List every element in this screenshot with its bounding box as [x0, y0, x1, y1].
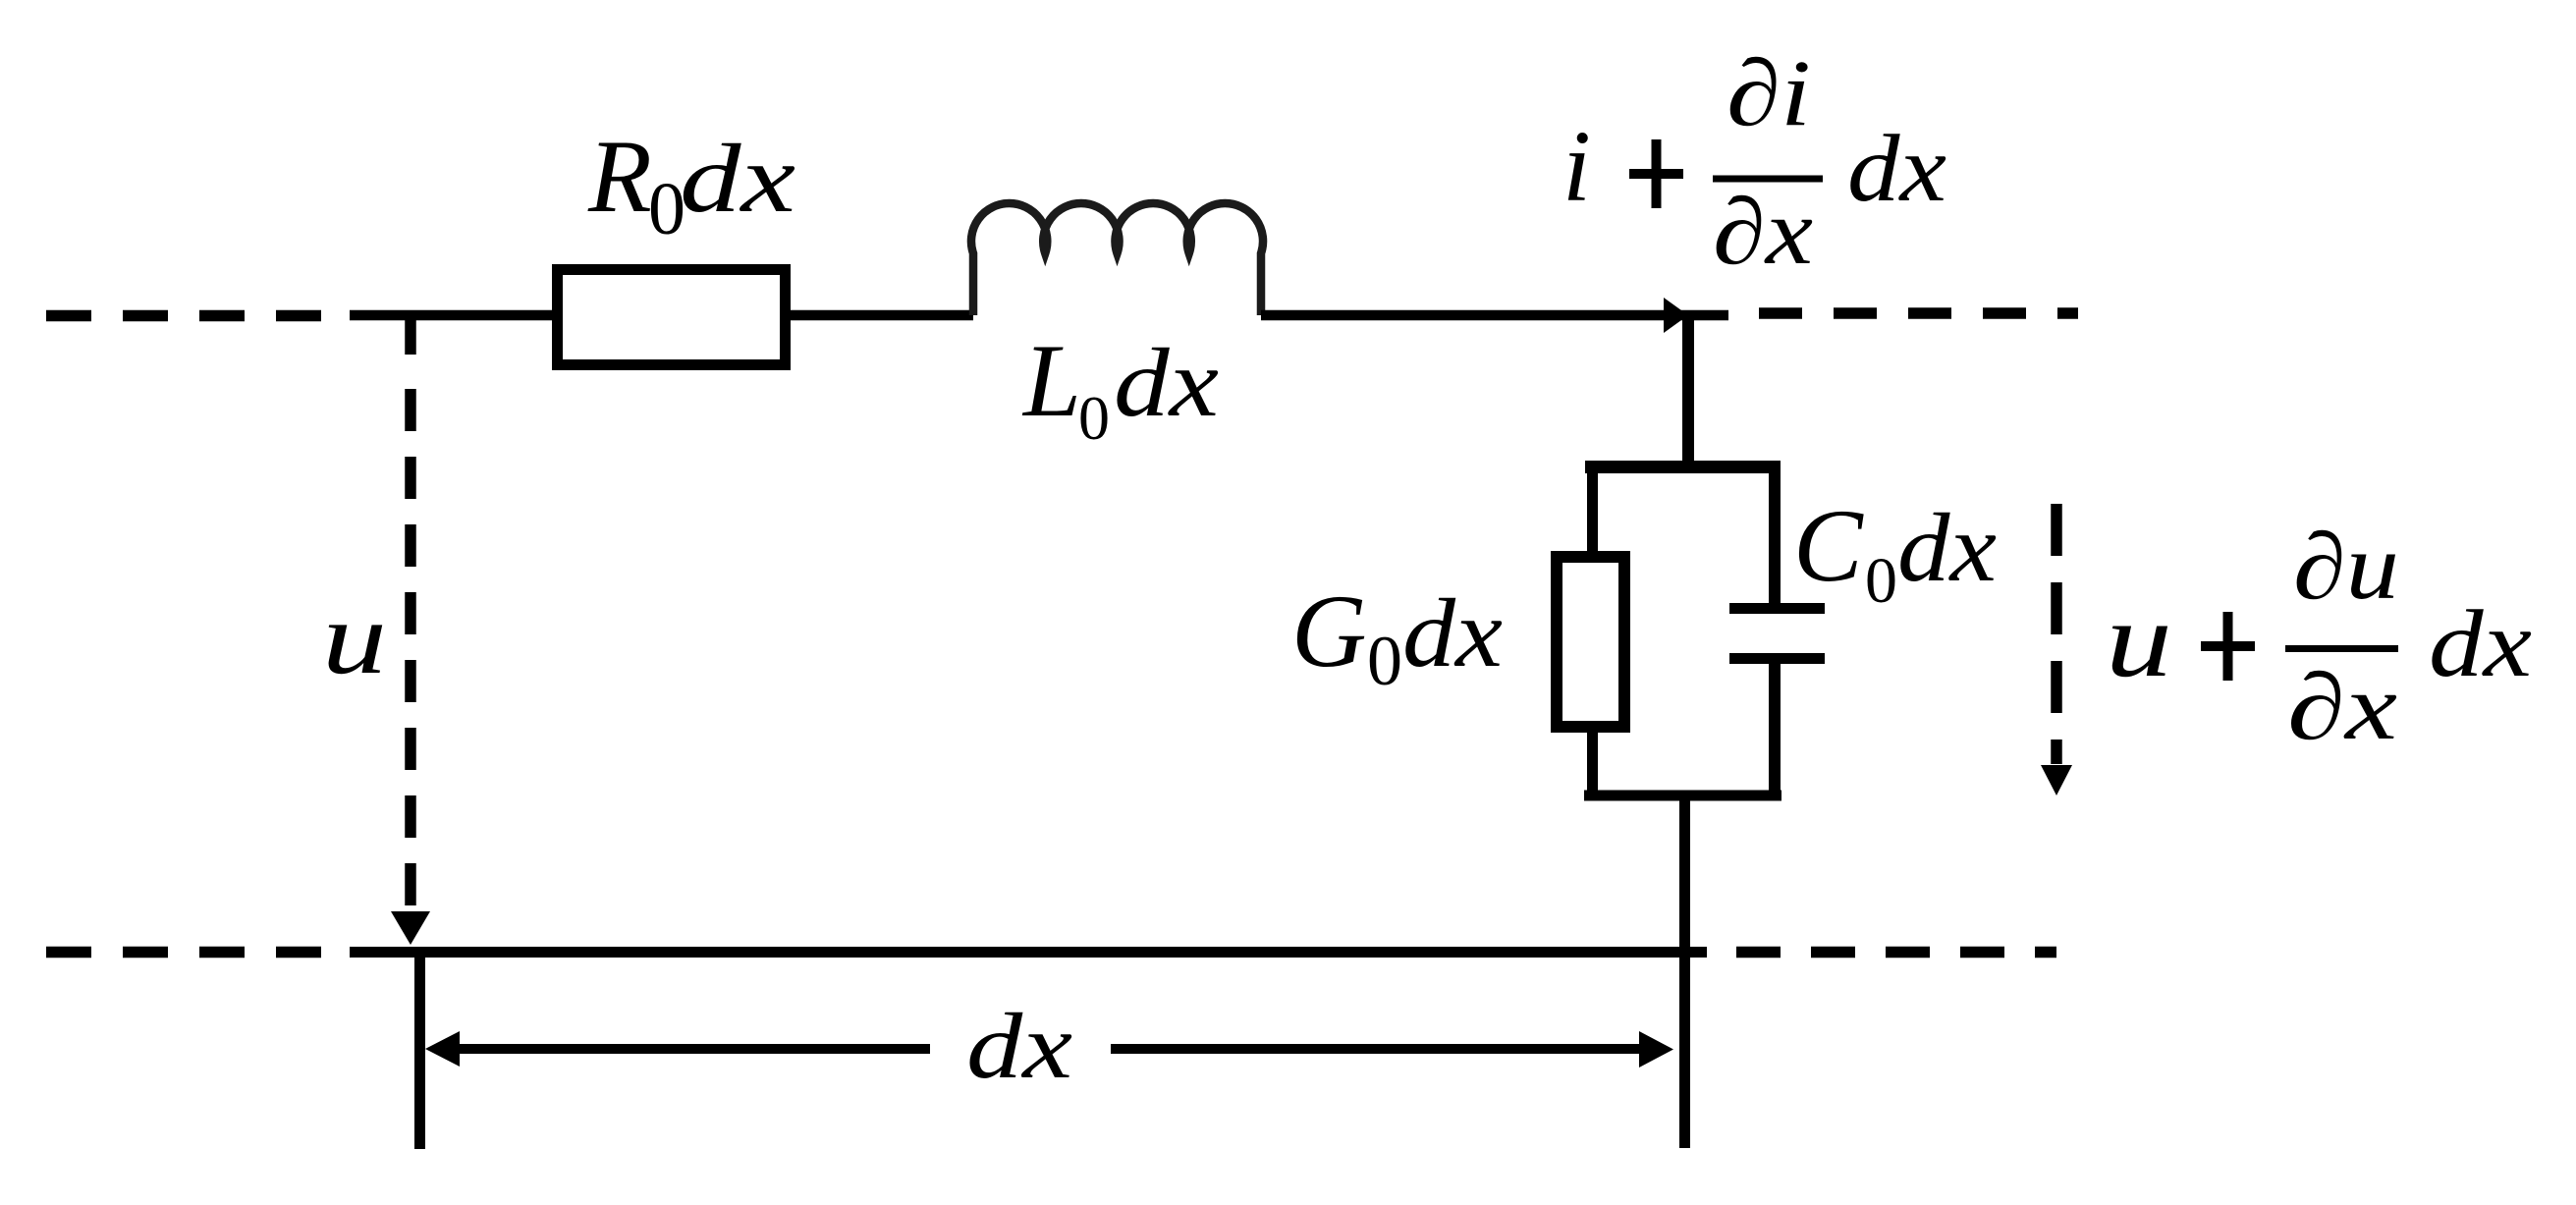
- wire: between resistor and inductor: [791, 310, 973, 321]
- resistor R1 (R0dx) body: [558, 270, 786, 365]
- svg-text:dx: dx: [966, 994, 1072, 1098]
- svg-text:dx: dx: [1402, 578, 1503, 687]
- svg-text:0: 0: [1367, 622, 1402, 700]
- parallel branch: right vertical upper segment: [1769, 461, 1781, 603]
- wire: bottom conductor solid: [350, 947, 1707, 958]
- svg-text:∂x: ∂x: [2287, 654, 2397, 759]
- svg-text:∂u: ∂u: [2293, 514, 2399, 619]
- capacitor C1 (C0dx) top plate: [1729, 603, 1825, 614]
- wire: bottom-right dashed continuation: [1736, 947, 2056, 959]
- node A: junction stub at left node: [405, 315, 416, 355]
- svg-text:R: R: [587, 119, 652, 234]
- svg-text:L: L: [1021, 323, 1081, 438]
- dimension line dx: left segment: [454, 1044, 930, 1054]
- wire: inductor to node B: [1261, 310, 1728, 321]
- parallel branch: top bar: [1585, 461, 1781, 473]
- dimension line dx: left arrowhead: [425, 1031, 460, 1067]
- node B: junction vertical from top wire: [1682, 315, 1694, 462]
- fraction bar: [1713, 176, 1823, 183]
- svg-text:∂x: ∂x: [1713, 179, 1813, 284]
- voltage arrow u: dashed vertical line: [405, 389, 416, 908]
- wire: top-left dashed continuation: [46, 310, 334, 322]
- parallel branch: right vertical lower segment: [1769, 664, 1781, 797]
- conductance G1 (G0dx) body: [1557, 557, 1624, 727]
- dimension line dx: right segment: [1111, 1044, 1645, 1054]
- svg-text:dx: dx: [2429, 591, 2532, 696]
- wire: top-right dashed continuation: [1759, 307, 2078, 319]
- wire: top conductor left solid segment: [350, 310, 557, 321]
- wire: feed from node B bracket down through bottom line (also right tick): [1679, 792, 1690, 1148]
- voltage arrow u+du/dx: arrowhead: [2041, 765, 2072, 795]
- svg-text:dx: dx: [680, 124, 795, 233]
- voltage arrow u: arrowhead: [391, 911, 430, 945]
- voltage arrow u+du/dx: dashed vertical line at right: [2051, 504, 2062, 764]
- inductor L1 (L0dx) coil: [971, 203, 1263, 315]
- svg-text:dx: dx: [1897, 493, 1997, 602]
- svg-text:G: G: [1291, 574, 1367, 688]
- svg-text:u: u: [322, 580, 387, 695]
- plus sign (drawn): [2201, 641, 2255, 651]
- parallel branch: left vertical lower segment: [1587, 729, 1598, 797]
- svg-text:0: 0: [1078, 383, 1110, 453]
- svg-text:i: i: [1562, 110, 1591, 223]
- fraction bar: [2285, 645, 2398, 652]
- capacitor C1 bottom plate: [1729, 653, 1825, 664]
- svg-text:0: 0: [1865, 545, 1897, 617]
- svg-text:u: u: [2106, 579, 2172, 699]
- wire: bottom-left dashed continuation: [46, 947, 329, 959]
- dimension line dx: right arrowhead: [1639, 1031, 1673, 1068]
- dimension: left tick below bottom line: [414, 947, 425, 1149]
- parallel branch: bottom bar: [1584, 791, 1781, 801]
- current arrow i+di/dx (arrowhead on top wire): [1664, 298, 1688, 333]
- plus sign (drawn): [1629, 169, 1683, 179]
- svg-text:C: C: [1793, 488, 1864, 603]
- svg-text:∂i: ∂i: [1726, 40, 1811, 145]
- svg-text:dx: dx: [1114, 328, 1219, 437]
- parallel branch: left vertical upper segment: [1587, 461, 1598, 555]
- svg-text:dx: dx: [1847, 116, 1946, 221]
